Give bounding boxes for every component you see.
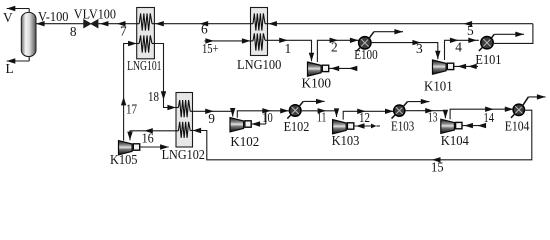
svg-text:E104: E104: [505, 119, 530, 134]
svg-text:15+: 15+: [202, 41, 219, 56]
svg-text:E101: E101: [475, 52, 501, 67]
energy arrowhead K100 b: [349, 66, 358, 71]
wire stream 5 long top line: [268, 23, 533, 25]
arrowhead stream 15: [432, 157, 441, 162]
svg-text:K101: K101: [424, 79, 453, 94]
wire vessel bottom to stream L: [28, 56, 30, 61]
arrowhead into E104: [505, 107, 514, 112]
arrowhead into LNG102 top coil: [167, 105, 176, 110]
wire stream 16: [130, 131, 176, 140]
compressor K100 body: [308, 62, 322, 76]
svg-text:15: 15: [431, 160, 444, 175]
cooler E104 body: [513, 104, 524, 115]
LNG exchanger LNG101 body: [137, 8, 155, 59]
energy stream wire K100: [329, 67, 357, 69]
vent arrow wire E102: [303, 100, 324, 102]
energy riser K102: [265, 111, 267, 124]
arrowhead stream 14: [485, 107, 494, 112]
vent arrow wire E101: [494, 33, 524, 35]
wire stream 10: [237, 111, 288, 118]
arrowhead stream L: [7, 58, 16, 63]
arrowhead stream 3: [412, 40, 421, 45]
LNG100 top coil: [251, 23, 254, 25]
arrowhead stream 5: [464, 21, 473, 26]
vent arrowhead E103: [421, 99, 430, 104]
cooler E103 body: [394, 105, 405, 116]
vent arrowhead E104: [537, 94, 546, 99]
svg-text:4: 4: [455, 40, 462, 55]
svg-text:5: 5: [467, 23, 474, 38]
cooler E102 SW nozzle stub: [287, 114, 291, 119]
compressor K105 shaft box: [133, 144, 139, 150]
LNG101 top coil: [137, 23, 140, 25]
energy arrowhead K105: [160, 144, 169, 149]
energy stream wire K102: [251, 123, 266, 125]
wire stream V horizontal: [7, 8, 30, 10]
cooler E101 body: [481, 37, 493, 49]
arrowhead into LNG100: [268, 21, 277, 26]
energy arrowhead K102: [252, 121, 261, 126]
arrowhead into LNG101: [155, 21, 164, 26]
LNG exchanger LNG100 body: [251, 8, 268, 56]
arrowhead stream 11: [318, 108, 327, 113]
wire stream 12: [343, 111, 393, 119]
svg-text:E103: E103: [391, 119, 414, 134]
compressor K105 body: [119, 141, 133, 155]
svg-text:K105: K105: [110, 152, 138, 167]
LNG exchanger LNG102 body: [176, 93, 193, 148]
wire stream 9: [193, 111, 233, 116]
energy arrowhead K101 a: [458, 64, 467, 69]
arrowhead into E102: [280, 108, 289, 113]
LNG101 bottom coil: [137, 43, 140, 45]
cooler E101 SW nozzle stub: [479, 46, 483, 51]
compressor K103 shaft box: [347, 123, 353, 129]
svg-text:10: 10: [262, 110, 273, 125]
arrowhead stream 15+ into LNG100: [242, 38, 251, 43]
arrowhead into LNG101 bottom coil: [128, 41, 137, 46]
compressor K104 shaft box: [456, 122, 462, 128]
compressor K100 shaft box: [322, 65, 328, 71]
cooler E101 NE nozzle stub: [490, 34, 494, 39]
wire stream 18: [154, 44, 176, 108]
cooler E100 SW nozzle stub: [357, 47, 361, 52]
arrowhead stream 4: [450, 38, 459, 43]
arrowhead into E100: [350, 38, 359, 43]
wire stream 13: [405, 111, 445, 119]
svg-text:13: 13: [428, 110, 438, 125]
energy stream tail K103: [377, 125, 380, 127]
svg-text:11: 11: [317, 110, 326, 125]
wire stream L horizontal: [7, 60, 30, 62]
svg-text:LNG102: LNG102: [162, 147, 205, 162]
energy stream wire K103: [354, 125, 371, 127]
energy arrowhead K104 b: [478, 123, 487, 128]
svg-text:17: 17: [126, 102, 137, 117]
wire stream 15+: [205, 40, 251, 42]
svg-text:8: 8: [70, 24, 77, 39]
arrowhead stream 16: [144, 128, 153, 133]
svg-text:K104: K104: [441, 133, 469, 148]
arrowhead stream 2: [330, 38, 339, 43]
arrowhead stream V: [7, 6, 16, 11]
cooler E100 NE nozzle stub: [368, 32, 374, 40]
wire stream 15: [193, 110, 532, 160]
cooler E102 NE nozzle stub: [298, 101, 303, 107]
arrowhead into K102: [230, 108, 235, 117]
wire stream 17: [124, 44, 137, 141]
wire stream 3: [371, 43, 438, 60]
vent arrow wire E100: [374, 31, 403, 33]
arrowhead stream 6: [200, 21, 209, 26]
arrowhead into K103: [334, 108, 339, 117]
wire stream 8 valve to vessel: [36, 23, 84, 25]
energy stream wire K105: [140, 146, 169, 148]
svg-text:6: 6: [201, 22, 208, 37]
vent arrowhead E102: [316, 99, 325, 104]
wire stream 6 LNG100 to LNG101: [154, 23, 250, 25]
svg-text:E102: E102: [284, 119, 310, 134]
wire stream 11: [301, 111, 337, 117]
cooler E100 body: [359, 37, 371, 49]
vessel V-100: [21, 12, 36, 56]
wire stream 7 LNG101 to valve: [98, 23, 137, 25]
arrowhead at valve inlet: [100, 21, 109, 26]
arrowhead into K100: [309, 53, 314, 62]
wire stream 4: [445, 40, 479, 60]
arrowhead stream 7: [117, 21, 126, 26]
valve VLV100: [84, 20, 98, 28]
arrowhead into K101: [435, 51, 440, 60]
svg-text:2: 2: [331, 40, 338, 55]
compressor K102 shaft box: [245, 121, 251, 127]
arrowhead stream 1: [279, 38, 288, 43]
energy arrowhead K100 a: [331, 66, 340, 71]
cooler E104 SW nozzle stub: [511, 113, 515, 118]
compressor K104 body: [441, 119, 455, 133]
cooler E102 body: [289, 105, 301, 117]
svg-text:LNG100: LNG100: [237, 57, 282, 72]
arrowhead into vessel: [36, 21, 45, 26]
compressor K103 body: [333, 120, 347, 134]
compressor K102 body: [230, 118, 244, 132]
arrowhead stream 13: [425, 108, 434, 113]
svg-text:V: V: [3, 10, 13, 25]
energy stream wire K104: [462, 125, 485, 127]
wire stream 2: [317, 40, 358, 62]
arrowhead into K105: [127, 132, 132, 141]
wire stream 14: [450, 109, 513, 119]
energy arrowhead K101 b: [468, 64, 477, 69]
svg-text:L: L: [6, 61, 14, 76]
arrowhead into E103: [385, 109, 394, 114]
svg-text:K102: K102: [230, 134, 259, 149]
svg-text:1: 1: [285, 41, 292, 56]
arrowhead stream 12: [357, 109, 366, 114]
cooler E103 NE nozzle stub: [402, 102, 407, 108]
energy arrowhead K104 a: [464, 123, 473, 128]
energy arrowhead K103 b: [371, 124, 377, 129]
vent arrowhead E101: [515, 32, 524, 37]
svg-text:K103: K103: [332, 133, 360, 148]
wire stream 1: [268, 40, 312, 61]
wire vessel top to stream V: [28, 9, 30, 13]
cooler E103 SW nozzle stub: [392, 114, 396, 119]
svg-text:VLV100: VLV100: [74, 7, 116, 22]
svg-text:12: 12: [359, 110, 370, 125]
vent arrowhead E100: [394, 29, 403, 34]
energy arrowhead K103 a: [356, 123, 365, 128]
compressor K101 body: [433, 60, 447, 74]
arrowhead stream 15+ mid: [205, 38, 214, 43]
vent arrow wire E104: [528, 96, 545, 98]
svg-text:K100: K100: [302, 76, 332, 91]
vent arrow wire E103: [408, 101, 430, 103]
arrowhead stream 10: [262, 108, 271, 113]
wire stream 5 riser: [492, 24, 533, 44]
svg-text:3: 3: [416, 41, 423, 56]
arrowhead stream 17: [121, 97, 126, 106]
svg-text:18: 18: [148, 89, 159, 104]
svg-text:E100: E100: [354, 47, 378, 62]
arrowhead stream 9: [205, 109, 214, 114]
svg-text:14: 14: [484, 110, 495, 125]
svg-text:9: 9: [208, 111, 215, 126]
LNG102 top coil: [176, 107, 178, 109]
arrowhead into K104: [443, 110, 448, 119]
svg-text:16: 16: [142, 131, 154, 146]
energy stream wire K101: [454, 65, 478, 67]
arrowhead into LNG102 bottom coil: [193, 128, 202, 133]
cooler E104 NE nozzle stub: [522, 97, 528, 107]
svg-text:7: 7: [120, 24, 127, 39]
compressor K101 shaft box: [447, 63, 453, 69]
LNG102 bottom coil: [176, 130, 178, 132]
arrowhead stream 18: [161, 91, 166, 100]
arrowhead into E101: [468, 38, 477, 43]
LNG100 bottom coil: [251, 40, 254, 42]
svg-text:LNG101: LNG101: [127, 58, 161, 73]
